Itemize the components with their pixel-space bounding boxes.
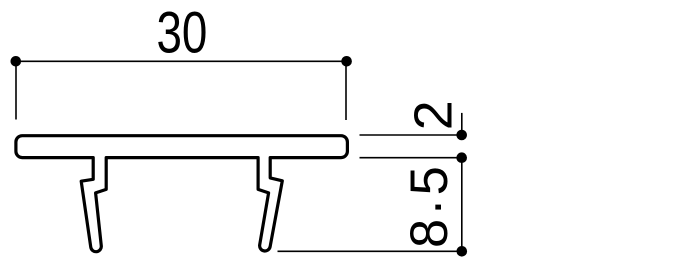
svg-text:30: 30: [156, 1, 207, 66]
svg-text:8.5: 8.5: [394, 166, 459, 248]
svg-text:2: 2: [403, 100, 463, 130]
